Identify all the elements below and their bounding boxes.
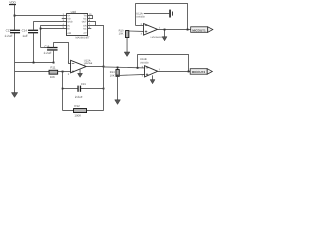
svg-text:3: 3 — [68, 73, 70, 76]
wire R10 to ground — [126, 38, 128, 52]
node junction output-feedback U11A — [187, 29, 189, 31]
node junction VDD bus — [14, 15, 16, 17]
wire IC pin3 to C14 — [34, 22, 67, 31]
svg-text:2.2uF: 2.2uF — [5, 34, 13, 38]
svg-text:V+: V+ — [67, 15, 71, 18]
svg-text:C14: C14 — [22, 29, 28, 33]
node junction output rail — [103, 66, 105, 68]
U11A feedback loop — [136, 4, 188, 30]
wire C14 bottom to ground line — [33, 33, 35, 63]
svg-text:3: 3 — [141, 32, 143, 35]
svg-text:5: 5 — [142, 75, 144, 78]
svg-text:2.2uF: 2.2uF — [44, 51, 52, 55]
op-amp U11B — [145, 66, 158, 77]
ground arrow left rail — [11, 93, 17, 98]
IC right pin stub 5 — [88, 28, 92, 30]
svg-text:NC: NC — [83, 18, 87, 21]
svg-text:2.2uF: 2.2uF — [75, 95, 83, 99]
resistor R10 — [126, 31, 129, 38]
resistor R11 — [49, 70, 58, 74]
capacitor C16 — [47, 48, 58, 50]
node junction R13 top — [117, 67, 119, 69]
svg-text:GN: GN — [83, 25, 87, 28]
op-amp U12A — [71, 60, 87, 73]
svg-text:TH: TH — [84, 15, 87, 18]
U11B feedback loop — [138, 55, 189, 72]
svg-text:OUT: OUT — [82, 21, 87, 24]
node junction non-inverting tap — [117, 75, 119, 77]
svg-text:CT: CT — [84, 32, 88, 35]
wire IC pin4 to C16 vertical — [41, 26, 67, 48]
svg-text:1uF: 1uF — [22, 34, 27, 38]
feedback bottom wire — [63, 110, 104, 112]
U11A inverting input wire — [136, 25, 144, 27]
svg-text:C15: C15 — [81, 82, 87, 86]
wire to U11B non-inverting input — [118, 74, 145, 75]
svg-text:C13: C13 — [6, 29, 12, 33]
svg-text:LMV358: LMV358 — [140, 61, 149, 64]
IC right pin stubs rows 3-4 — [88, 22, 96, 26]
wire R11 to op-amp U12A non-inverting input — [58, 71, 71, 73]
ground arrow below U11B — [152, 75, 154, 79]
svg-text:R11: R11 — [50, 66, 55, 70]
connector flag MICOUT2 — [190, 69, 212, 75]
svg-text:C16: C16 — [44, 45, 50, 49]
svg-text:10K: 10K — [50, 75, 55, 79]
feedback left rail — [62, 72, 64, 111]
ground arrow below U12A — [79, 70, 81, 74]
op-amp U11A — [144, 24, 158, 35]
IC U10 box — [67, 14, 88, 36]
svg-text:10K: 10K — [110, 74, 115, 77]
svg-text:NC: NC — [83, 28, 87, 31]
ground arrow below R10 — [124, 52, 130, 57]
wire U11B output — [158, 70, 190, 72]
wire bus to IC pin1 — [15, 15, 67, 17]
wire IC to long vertical rail — [96, 26, 104, 111]
svg-text:IN: IN — [67, 25, 70, 28]
node junction cap branch left — [62, 88, 64, 90]
node junction H1-C14 — [33, 62, 35, 64]
wire feedback cap branch — [63, 88, 79, 90]
svg-text:LMV358AID: LMV358AID — [151, 36, 163, 39]
svg-text:MICOUT1: MICOUT1 — [192, 28, 206, 32]
wire VDD vertical below C13 — [14, 33, 16, 93]
node junction feedback tap — [62, 71, 64, 73]
svg-text:GND: GND — [67, 21, 72, 24]
node junction H1-C16 — [53, 62, 55, 64]
svg-text:VDD: VDD — [9, 0, 16, 4]
wire VDD vertical down — [14, 5, 16, 31]
svg-text:10K: 10K — [119, 33, 124, 36]
node junction feedback-input — [137, 67, 139, 69]
IC left pin stub 2 — [62, 18, 67, 20]
connector flag MICOUT1 — [191, 27, 213, 33]
svg-text:SD: SD — [67, 18, 71, 21]
wire R13 to ground — [117, 76, 119, 99]
svg-text:MAX9814ET: MAX9814ET — [76, 37, 91, 40]
IC right pin stubs rows 1-2 — [88, 16, 93, 19]
wire U11A output — [158, 29, 191, 31]
svg-text:U10: U10 — [71, 10, 77, 14]
wire to C16 left plate — [41, 47, 48, 49]
svg-text:100K: 100K — [74, 114, 81, 118]
power rail VDD symbol — [9, 4, 16, 6]
resistor R12 — [74, 109, 87, 113]
wire input H2 to R11 — [15, 71, 50, 73]
capacitor C14 — [28, 30, 38, 32]
ground arrow below R13 — [115, 100, 121, 105]
wire IC pin5 tee — [41, 28, 67, 30]
resistor R13 (to ground) — [117, 67, 119, 69]
svg-text:LMV358: LMV358 — [136, 16, 145, 19]
node junction pin5 tee — [40, 28, 42, 30]
svg-text:BI: BI — [67, 28, 70, 31]
wire C16 bottom to ground line — [53, 50, 55, 63]
node junction cap branch right — [103, 88, 105, 90]
wire ground horizontal H1 — [15, 62, 54, 64]
svg-text:R12: R12 — [74, 104, 80, 108]
wire main to U11B inverting input — [104, 67, 145, 68]
capacitor C13 — [10, 30, 20, 32]
svg-text:A/R: A/R — [67, 32, 71, 35]
wire U12A output to long vertical — [86, 66, 103, 68]
node junction output-feedback — [188, 71, 190, 73]
capacitor C15 — [78, 86, 80, 92]
sideways ground branch — [144, 13, 170, 15]
ground stub on U11A output — [164, 30, 166, 37]
wire R10 top to U11A non-inverting — [129, 30, 144, 32]
svg-text:MICOUT2: MICOUT2 — [192, 70, 206, 74]
wire C16 top to op-amp U12A inverting input — [54, 43, 71, 64]
